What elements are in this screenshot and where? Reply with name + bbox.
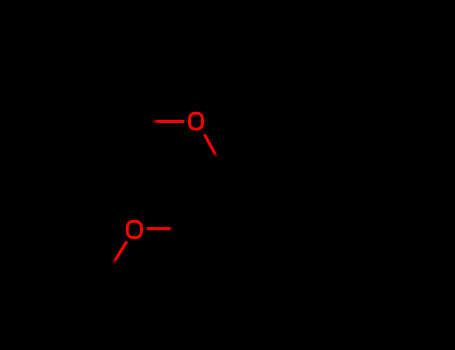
atom O2 (bottom ether oxygen) [127, 221, 141, 237]
bond O1-C1 (red half from O1 down-right, fading toward ring carbon) [204, 134, 217, 157]
bond O2-C2 (red half from O2 to the right, fading toward ring carbon) [147, 227, 173, 230]
bond CH3-O1 (red half toward O1, fading tail toward methyl carbon) [151, 120, 184, 123]
bond CH2-O2 (red half from O2 down-left, fading toward ethyl carbon) [113, 241, 127, 263]
atom O1 (top ether oxygen) [190, 113, 203, 129]
